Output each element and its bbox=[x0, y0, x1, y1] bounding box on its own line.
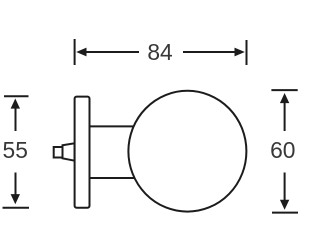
dim line left segment bbox=[85, 51, 139, 53]
up arrow shaft bbox=[284, 102, 286, 131]
knob neck top line bbox=[90, 125, 137, 127]
arrowhead up (55) bbox=[11, 99, 20, 109]
spindle neck frustum bbox=[63, 143, 75, 160]
arrowhead right (84) bbox=[235, 48, 245, 57]
dimension 84 (top) bbox=[75, 39, 247, 65]
down arrow shaft bbox=[15, 173, 17, 196]
rose plate (side view) bbox=[75, 97, 90, 208]
dim line right segment bbox=[183, 51, 237, 53]
svg-text:55: 55 bbox=[3, 137, 28, 163]
up arrow shaft bbox=[15, 108, 17, 132]
extension tick top bbox=[271, 89, 297, 91]
extension tick top bbox=[4, 95, 29, 97]
svg-text:84: 84 bbox=[147, 39, 173, 65]
dimension 60 (right) bbox=[271, 90, 298, 213]
extension tick right bbox=[246, 40, 248, 65]
svg-text:60: 60 bbox=[270, 137, 295, 163]
arrowhead up (60) bbox=[280, 93, 289, 103]
extension tick bottom bbox=[3, 207, 30, 209]
arrowhead down (60) bbox=[280, 200, 289, 210]
knob neck bottom line bbox=[90, 177, 137, 179]
extension tick bottom bbox=[272, 212, 298, 214]
dimension 55 (left) bbox=[3, 96, 30, 208]
down arrow shaft bbox=[284, 173, 286, 202]
ball knob bbox=[128, 91, 246, 212]
spindle tip bbox=[54, 147, 63, 158]
extension tick left bbox=[74, 39, 76, 65]
arrowhead left (84) bbox=[76, 48, 86, 57]
arrowhead down (55) bbox=[11, 194, 20, 204]
